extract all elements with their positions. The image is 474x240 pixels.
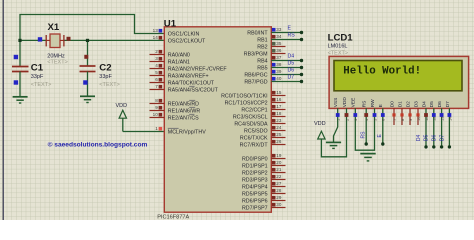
wire LCD D4 stub with net label: [424, 108, 427, 148]
U1 pin 14 (OSC2/CLKOUT): [153, 35, 206, 45]
C1 reference label: [31, 63, 44, 74]
LCD1 pin 6 marker + number: [381, 113, 386, 121]
svg-text:16: 16: [276, 97, 282, 102]
svg-text:12: 12: [433, 117, 437, 121]
U1 pin 9 (RE1/AN6/WR): [150, 105, 201, 115]
LCD1 pin 10 marker + number: [416, 113, 421, 121]
svg-text:<TEXT>: <TEXT>: [99, 82, 119, 88]
svg-text:D4: D4: [421, 101, 427, 107]
svg-text:25: 25: [276, 132, 282, 137]
U1 pin 13 (OSC1/CLKIN): [153, 28, 200, 38]
svg-text:RA2/AN2/VREF-/CVREF: RA2/AN2/VREF-/CVREF: [168, 66, 228, 72]
U1 pin 19 (RD0/PSP0): [242, 153, 286, 163]
svg-text:8: 8: [155, 98, 158, 103]
svg-text:LM016L: LM016L: [328, 43, 348, 49]
svg-text:RS: RS: [288, 32, 296, 38]
svg-text:15: 15: [276, 90, 282, 95]
svg-text:4: 4: [365, 119, 369, 121]
svg-text:VDD: VDD: [342, 97, 348, 108]
net label D4 (LCD side): [416, 134, 422, 141]
svg-text:E: E: [288, 25, 292, 31]
LCD1 pin 2 (VDD) name + stub: [342, 97, 348, 108]
LCD1 pin 10 (D3) name + stub: [413, 101, 419, 125]
svg-text:RS: RS: [361, 131, 367, 139]
svg-text:5: 5: [155, 70, 158, 75]
svg-text:28: 28: [276, 188, 282, 193]
svg-text:9: 9: [155, 105, 158, 110]
U1 pin 4 (RA2/AN2/VREF-/CVREF): [150, 63, 228, 73]
svg-text:OSC1/CLKIN: OSC1/CLKIN: [168, 31, 200, 37]
svg-text:21: 21: [276, 167, 282, 172]
svg-text:33pF: 33pF: [31, 74, 44, 80]
svg-text:RC5/SDO: RC5/SDO: [244, 128, 268, 134]
svg-text:33: 33: [276, 27, 282, 32]
net label D6: [288, 67, 295, 73]
svg-text:34: 34: [276, 34, 282, 39]
svg-text:RD1/PSP1: RD1/PSP1: [242, 163, 268, 169]
U1 pin 36 (RB3/PGM): [244, 48, 286, 58]
U1 pin 2 (RA0/AN0): [150, 49, 190, 59]
svg-text:RB5: RB5: [257, 65, 267, 71]
svg-text:OSC2/CLKOUT: OSC2/CLKOUT: [168, 38, 206, 44]
ground under C2: [80, 96, 95, 102]
U1 pin 22 (RD3/PSP3): [242, 174, 286, 184]
LCD screen: [334, 61, 462, 91]
U1 pin 25 (RC6/TX/CK): [240, 132, 286, 142]
net label D7 (LCD side): [439, 134, 445, 141]
svg-text:14: 14: [153, 35, 159, 40]
LCD1 pin 7 marker + number: [392, 113, 397, 121]
U1 reference label: [164, 18, 177, 29]
wire LCD VSS to ground: [334, 108, 338, 142]
svg-text:D5: D5: [429, 101, 435, 107]
VDD label (LCD): [314, 121, 326, 127]
U1 pin 10 (RE2/AN7/CS): [150, 112, 200, 122]
svg-text:RB3/PGM: RB3/PGM: [244, 51, 268, 57]
svg-text:<TEXT>: <TEXT>: [31, 82, 51, 88]
U1 pin 21 (RD2/PSP2): [242, 167, 286, 177]
svg-text:© saeedsolutions.blogspot.com: © saeedsolutions.blogspot.com: [48, 140, 148, 148]
svg-text:RW: RW: [370, 99, 376, 107]
svg-text:RD0/PSP0: RD0/PSP0: [242, 156, 268, 162]
microcontroller U1 PIC16F877A body: [164, 27, 271, 212]
C2 value 33pF: [99, 74, 112, 80]
wire LCD D6 stub with net label: [440, 108, 443, 148]
svg-text:VEE: VEE: [351, 98, 357, 108]
power VDD (MCLR pull): [119, 110, 126, 131]
wire OSC1 top: from node A up-over to U1 pin 13: [20, 15, 164, 67]
ground under C1: [13, 97, 28, 103]
svg-text:27: 27: [276, 181, 282, 186]
svg-text:RE2/AN7/CS: RE2/AN7/CS: [168, 115, 199, 121]
svg-text:18: 18: [276, 111, 282, 116]
svg-text:13: 13: [441, 117, 445, 121]
svg-text:RB6/PGC: RB6/PGC: [244, 72, 267, 78]
capacitor C1: [12, 67, 29, 97]
U1 pin 37 (RB4): [257, 55, 282, 65]
net label RS: [288, 32, 296, 38]
LCD1 pin 9 (D2) name + stub: [405, 101, 411, 125]
svg-text:RC2/CCP1: RC2/CCP1: [241, 107, 267, 113]
U1 pin 29 (RD6/PSP6): [242, 195, 286, 205]
U1 pin 28 (RD5/PSP5): [242, 188, 286, 198]
svg-text:37: 37: [276, 55, 282, 60]
LCD text Hello World!: [343, 66, 421, 78]
net label E: [288, 25, 292, 31]
LCD1 pin 8 marker + number: [400, 113, 405, 121]
U1 pin 5 (RA3/AN3/VREF+): [150, 70, 209, 80]
wire LCD D7 stub with net label: [448, 108, 451, 148]
svg-text:6: 6: [382, 119, 386, 121]
LCD1 <TEXT> placeholder: [328, 50, 348, 56]
svg-text:D5: D5: [424, 134, 430, 141]
LCD1 pin 2 marker + number: [345, 113, 350, 121]
svg-text:22: 22: [276, 174, 282, 179]
marker square left of X1: [38, 37, 42, 41]
LCD1 pin 11 (D4) name + stub: [421, 101, 427, 107]
capacitor C2: [80, 66, 96, 96]
LCD1 pin 13 (D6) name + stub: [437, 101, 443, 107]
net label D6 (LCD side): [432, 134, 438, 141]
C2 top pin marker: [84, 55, 88, 59]
wire X1 right terminal to U1 pin 14 (OSC2): [64, 39, 164, 41]
svg-text:C1: C1: [31, 63, 44, 74]
svg-text:38: 38: [276, 62, 282, 67]
svg-text:7: 7: [155, 84, 158, 89]
U1 pin 23 (RC4/SDI/SDA): [234, 118, 285, 128]
svg-text:<TEXT>: <TEXT>: [328, 50, 348, 56]
svg-text:RC4/SDI/SDA: RC4/SDI/SDA: [234, 121, 268, 127]
svg-text:RA5/AN4/SS/C2OUT: RA5/AN4/SS/C2OUT: [168, 87, 219, 93]
svg-text:<TEXT>: <TEXT>: [47, 60, 67, 66]
LCD1 LM016L body: [329, 56, 469, 108]
svg-text:20: 20: [276, 160, 282, 165]
svg-text:VDD: VDD: [116, 103, 128, 109]
crystal X1: [46, 34, 64, 48]
svg-text:26: 26: [276, 139, 282, 144]
svg-text:14: 14: [448, 117, 452, 121]
svg-text:RB1: RB1: [257, 37, 267, 43]
svg-text:MCLR/Vpp/THV: MCLR/Vpp/THV: [168, 129, 206, 135]
U1 pin 27 (RD4/PSP4): [242, 181, 286, 191]
svg-text:RC6/TX/CK: RC6/TX/CK: [240, 135, 268, 141]
X1 <TEXT> placeholder: [47, 60, 67, 66]
svg-text:VDD: VDD: [314, 121, 326, 127]
wire C2 branch down from junction: [87, 40, 89, 66]
C1 <TEXT> placeholder: [31, 82, 51, 88]
svg-text:29: 29: [276, 195, 282, 200]
svg-text:9: 9: [409, 119, 413, 121]
net label RS (LCD side): [361, 131, 367, 139]
U1 pin 35 (RB2): [257, 41, 285, 51]
U1 pin 15 (RC0/T1OSO/T1CKI): [221, 90, 285, 100]
U1 pin 30 (RD7/PSP7): [242, 202, 286, 212]
wire U1 pin 34 to net RS: [271, 38, 303, 41]
svg-text:10: 10: [417, 117, 421, 121]
svg-text:39: 39: [276, 69, 282, 74]
net label E (LCD side): [377, 134, 383, 138]
svg-text:2: 2: [345, 119, 349, 121]
wire LCD E stub with net label: [381, 108, 384, 146]
svg-text:VSS: VSS: [333, 98, 339, 108]
svg-text:RB7/PGD: RB7/PGD: [244, 79, 267, 85]
ground under LCD VSS: [326, 142, 341, 148]
svg-text:RE0/AN5/RD: RE0/AN5/RD: [168, 101, 199, 107]
svg-text:RC3/SCK/SCL: RC3/SCK/SCL: [233, 114, 268, 120]
svg-text:D0: D0: [389, 101, 395, 107]
svg-text:33pF: 33pF: [99, 74, 112, 80]
junction node B (crystal right / C2 tap): [86, 39, 89, 42]
svg-text:D6: D6: [288, 67, 295, 73]
svg-text:3: 3: [354, 119, 358, 121]
svg-text:RD2/PSP2: RD2/PSP2: [242, 170, 268, 176]
C2 bottom pin marker: [83, 80, 87, 84]
svg-text:11: 11: [425, 117, 429, 121]
svg-text:PIC16F877A: PIC16F877A: [157, 215, 189, 220]
svg-text:RC0/T1OSO/T1CKI: RC0/T1OSO/T1CKI: [221, 93, 268, 99]
U1 pin 38 (RB5): [257, 62, 282, 72]
U1 pin 18 (RC3/SCK/SCL): [233, 111, 286, 121]
svg-text:D1: D1: [397, 101, 403, 107]
C1 top pin marker: [14, 55, 18, 59]
LCD1 pin 5 marker + number: [373, 113, 378, 121]
svg-text:Hello World!: Hello World!: [343, 66, 421, 78]
svg-text:RD7/PSP7: RD7/PSP7: [242, 205, 268, 211]
svg-text:D3: D3: [413, 101, 419, 107]
LCD1 pin 8 (D1) name + stub: [397, 101, 403, 125]
svg-text:2: 2: [155, 49, 158, 54]
svg-text:RB4: RB4: [257, 58, 267, 64]
C2 <TEXT> placeholder: [99, 82, 119, 88]
svg-text:D5: D5: [288, 60, 295, 66]
LCD1 pin 4 (RS) name + stub: [362, 101, 368, 108]
svg-text:RD6/PSP6: RD6/PSP6: [242, 198, 268, 204]
LCD1 pin 11 marker + number: [424, 113, 429, 121]
LCD1 pin 14 marker + number: [448, 113, 453, 121]
svg-text:35: 35: [276, 41, 282, 46]
svg-text:RC7/RX/DT: RC7/RX/DT: [240, 142, 269, 148]
X1 reference label: [48, 22, 60, 33]
wire LCD VEE + RW to ground rail: [355, 108, 374, 150]
svg-text:RA0/AN0: RA0/AN0: [168, 52, 190, 58]
svg-text:RB2: RB2: [257, 44, 267, 50]
watermark text: [48, 140, 148, 148]
svg-text:4: 4: [155, 63, 158, 68]
svg-text:LCD1: LCD1: [328, 32, 354, 43]
svg-text:RS: RS: [362, 101, 368, 108]
svg-text:40: 40: [276, 76, 282, 81]
svg-text:U1: U1: [164, 18, 177, 29]
net label D4: [288, 53, 295, 59]
svg-text:RD5/PSP5: RD5/PSP5: [242, 191, 268, 197]
svg-text:D7: D7: [288, 74, 295, 80]
svg-text:RE1/AN6/WR: RE1/AN6/WR: [168, 108, 201, 114]
U1 pin 1 (MCLR/Vpp/THV): [155, 126, 206, 136]
U1 pin 40 (RB7/PGD): [244, 76, 282, 86]
U1 pin 33 (RB0/INT): [247, 27, 282, 37]
svg-text:X1: X1: [48, 22, 60, 33]
svg-text:RD3/PSP3: RD3/PSP3: [242, 177, 268, 183]
svg-text:D2: D2: [405, 101, 411, 107]
LCD1 part name LM016L: [328, 43, 348, 49]
U1 pin 17 (RC2/CCP1): [241, 104, 285, 114]
U1 pin 7 (RA5/AN4/SS/C2OUT): [150, 84, 219, 94]
svg-text:RA1/AN1: RA1/AN1: [168, 59, 190, 65]
wire U1 pin 39 to net D6: [271, 73, 303, 76]
LCD1 pin 1 (VSS) name + stub: [333, 98, 339, 108]
svg-text:24: 24: [276, 125, 282, 130]
C2 reference label: [99, 63, 111, 74]
LCD1 pin 5 (RW) name + stub: [370, 99, 376, 107]
svg-text:13: 13: [153, 28, 159, 33]
U1 pin 3 (RA1/AN1): [150, 56, 190, 66]
LCD1 pin 12 marker + number: [432, 113, 437, 121]
U1 pin 26 (RC7/RX/DT): [240, 139, 286, 149]
power VDD (LCD): [318, 108, 347, 157]
svg-text:D7: D7: [445, 101, 451, 107]
svg-text:10: 10: [153, 112, 159, 117]
svg-text:D6: D6: [432, 134, 438, 141]
svg-text:RA4/T0CKI/C1OUT: RA4/T0CKI/C1OUT: [168, 80, 215, 86]
VDD label (MCLR): [116, 103, 128, 109]
wire U1 pin 40 to net D7: [271, 80, 303, 83]
svg-text:36: 36: [276, 48, 282, 53]
X1 value 20MHz: [47, 53, 65, 59]
wire LCD RS stub with net label: [365, 108, 368, 146]
LCD1 pin 13 marker + number: [440, 113, 445, 121]
U1 pin 16 (RC1/T1OSI/CCP2): [225, 97, 286, 107]
U1 part name PIC16F877A: [157, 215, 189, 221]
svg-text:RB0/INT: RB0/INT: [247, 30, 268, 36]
svg-text:1: 1: [337, 119, 341, 121]
marker square right of X1: [67, 37, 71, 41]
wire LCD D5 stub with net label: [432, 108, 435, 148]
net label D7: [288, 74, 295, 80]
LCD1 pin 7 (D0) name + stub: [389, 101, 395, 125]
svg-text:3: 3: [155, 56, 158, 61]
LCD1 reference label: [328, 32, 354, 43]
ground under LCD VEE/RW rail: [360, 154, 375, 161]
svg-text:C2: C2: [99, 63, 111, 74]
svg-text:23: 23: [276, 118, 282, 123]
svg-text:20MHz: 20MHz: [47, 53, 65, 59]
LCD1 pin 1 marker + number: [336, 113, 341, 121]
C1 bottom pin marker: [14, 80, 18, 84]
svg-text:E: E: [378, 104, 384, 107]
net label D5 (LCD side): [424, 134, 430, 141]
svg-text:1: 1: [155, 126, 158, 131]
U1 pin 24 (RC5/SDO): [244, 125, 285, 135]
svg-text:19: 19: [276, 153, 282, 158]
C1 value 33pF: [31, 74, 44, 80]
wire U1 pin 37 to net D4: [271, 59, 303, 62]
U1 pin 20 (RD1/PSP1): [242, 160, 286, 170]
svg-text:30: 30: [276, 202, 282, 207]
svg-text:17: 17: [276, 104, 282, 109]
svg-text:5: 5: [373, 119, 377, 121]
LCD1 pin 3 marker + number: [353, 113, 358, 121]
sheet border left edge: [3, 0, 4, 220]
net label D5: [288, 60, 295, 66]
U1 pin 34 (RB1): [257, 34, 282, 44]
junction node A (wire T at x1 left / C1): [18, 39, 21, 42]
LCD1 pin 4 marker + number: [364, 113, 369, 121]
U1 pin 8 (RE0/AN5/RD): [150, 98, 200, 108]
LCD1 pin 9 marker + number: [408, 113, 413, 121]
svg-text:RC1/T1OSI/CCP2: RC1/T1OSI/CCP2: [225, 100, 268, 106]
svg-text:D4: D4: [416, 134, 422, 141]
LCD1 pin 6 (E) name + stub: [378, 104, 384, 107]
wire VDD to U1 pin 1 MCLR: [123, 131, 165, 133]
LCD1 pin 14 (D7) name + stub: [445, 101, 451, 107]
wire crystal row: node A to X1 left terminal: [20, 39, 46, 41]
wire U1 pin 33 to net E: [271, 31, 303, 34]
svg-text:8: 8: [401, 119, 405, 121]
svg-text:6: 6: [155, 77, 158, 82]
wire U1 pin 38 to net D5: [271, 66, 303, 69]
svg-text:7: 7: [393, 119, 397, 121]
svg-text:D4: D4: [288, 53, 295, 59]
U1 pin 39 (RB6/PGC): [244, 69, 282, 79]
svg-text:RA3/AN3/VREF+: RA3/AN3/VREF+: [168, 73, 209, 79]
svg-text:RD4/PSP4: RD4/PSP4: [242, 184, 268, 190]
LCD1 pin 3 (VEE) name + stub: [351, 98, 357, 108]
LCD1 pin 12 (D5) name + stub: [429, 101, 435, 107]
svg-text:D7: D7: [439, 134, 445, 141]
U1 pin 6 (RA4/T0CKI/C1OUT): [150, 77, 215, 87]
svg-text:D6: D6: [437, 101, 443, 107]
